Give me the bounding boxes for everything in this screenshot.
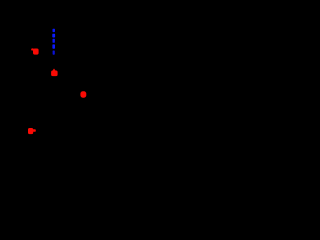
atom label N2 (blue) <box>52 44 55 48</box>
atom label N1 (blue) <box>52 34 55 38</box>
atom label O3 (red, right) <box>80 91 86 97</box>
bond half N2-C (blue segment, dimmer) <box>53 51 55 55</box>
atom label H (blue, top of N-H column) <box>53 29 56 32</box>
bond half N1-N2 (blue segment) <box>53 39 55 43</box>
atom label O1 (red, left) <box>31 48 38 54</box>
atom label O4 (red, lower left) <box>28 128 36 134</box>
atom label O2 (red, center, carbonyl) <box>51 69 58 77</box>
